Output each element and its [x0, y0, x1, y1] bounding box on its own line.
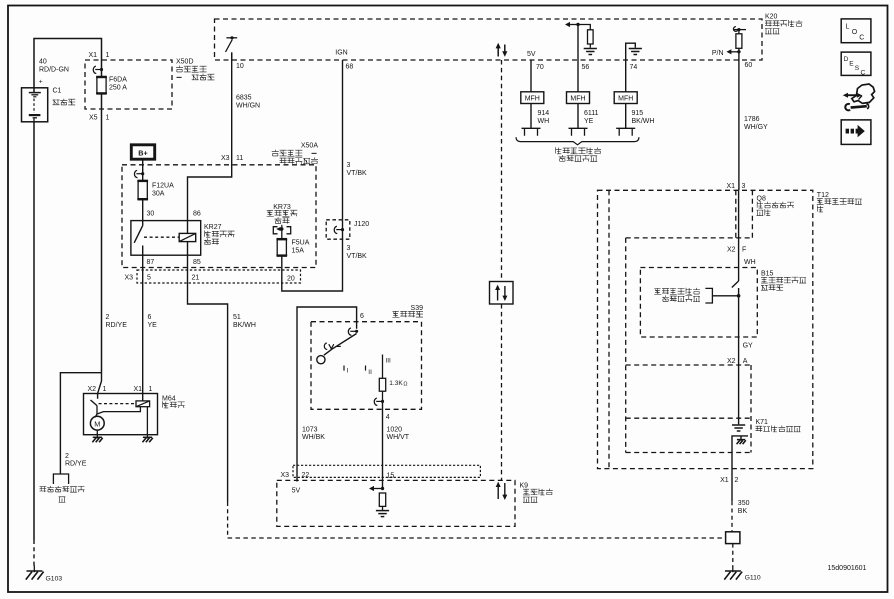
S39 position marks I II III	[343, 366, 345, 371]
K20 P/N signal pin 60	[733, 29, 746, 31]
connector to power distribution circuit	[53, 474, 68, 484]
svg-text:1: 1	[106, 52, 110, 59]
svg-text:15d0901601: 15d0901601	[828, 565, 867, 572]
wire relay pin 85 to X3-21 then 51 BK/WH	[188, 242, 228, 502]
K20 internal switch pin 10	[226, 37, 237, 39]
svg-text:A: A	[743, 358, 748, 365]
svg-text:5: 5	[147, 275, 151, 282]
transmission assembly T12	[598, 190, 813, 468]
svg-text:1786: 1786	[744, 116, 760, 123]
svg-text:RD/YE: RD/YE	[65, 460, 87, 467]
power label B+	[131, 145, 154, 159]
svg-text:BK/WH: BK/WH	[632, 118, 655, 125]
control solenoid assembly Q8	[735, 190, 737, 238]
svg-text:RD/YE: RD/YE	[106, 322, 128, 329]
svg-text:X5: X5	[89, 115, 98, 122]
svg-text:40: 40	[39, 59, 47, 66]
svg-text:3: 3	[742, 183, 746, 190]
svg-text:M64: M64	[162, 395, 176, 402]
svg-text:I: I	[347, 367, 349, 374]
inner module boundary	[625, 238, 627, 453]
fuse box X50D (battery)	[85, 60, 172, 109]
engine control module K20	[215, 19, 763, 60]
svg-text:86: 86	[193, 211, 201, 218]
B15 reference bracket to automatic transmission circuit	[654, 288, 661, 294]
wire GY	[738, 288, 740, 418]
terminal hook at F6DA	[95, 69, 101, 71]
svg-text:6: 6	[360, 313, 364, 320]
svg-text:+: +	[39, 78, 43, 85]
svg-text:70: 70	[536, 64, 544, 71]
relay KR27 starter relay	[131, 221, 201, 256]
svg-text:MFH: MFH	[525, 96, 540, 103]
svg-text:T12: T12	[817, 192, 829, 199]
svg-text:915: 915	[632, 110, 644, 117]
wire to G110	[732, 544, 734, 567]
svg-text:Ω: Ω	[403, 381, 407, 387]
svg-text:3: 3	[347, 162, 351, 169]
svg-text:X2: X2	[727, 358, 736, 365]
svg-text:KR27: KR27	[204, 224, 222, 231]
splice pack MFH 2	[567, 92, 590, 104]
svg-text:IGN: IGN	[335, 50, 347, 57]
connector X3 strip of K9	[293, 465, 480, 477]
svg-text:K71: K71	[756, 419, 769, 426]
inner boundary below B15	[626, 364, 751, 366]
svg-text:X2: X2	[727, 246, 736, 253]
svg-text:P/N: P/N	[712, 50, 724, 57]
K20 serial data arrows	[497, 46, 499, 57]
svg-text:E: E	[849, 60, 854, 67]
svg-text:WH/VT: WH/VT	[387, 434, 410, 441]
S39 terminal pin 6	[350, 330, 356, 332]
svg-text:2: 2	[735, 477, 739, 484]
svg-text:MFH: MFH	[570, 96, 585, 103]
in-line connector J120	[326, 220, 350, 239]
mode switch B15	[640, 268, 757, 338]
relay KR27 switch blade	[134, 225, 143, 243]
svg-text:X1: X1	[726, 183, 735, 190]
wire battery positive to X50D	[34, 39, 102, 93]
svg-text:1073: 1073	[302, 426, 318, 433]
wire 1786 WH/GY from K20 pin 60 to T12 X1-3	[738, 60, 740, 190]
svg-text:85: 85	[193, 259, 201, 266]
K20 ground pin 74	[626, 43, 636, 92]
terminal hook at F12UA	[136, 173, 142, 175]
svg-text:F12UA: F12UA	[152, 183, 174, 190]
K9 5V reference label	[296, 466, 298, 482]
svg-text:M: M	[94, 419, 100, 428]
svg-text:II: II	[368, 369, 372, 376]
icon next page arrow	[841, 120, 871, 144]
svg-text:GY: GY	[743, 342, 753, 349]
S39 switch arm	[324, 334, 357, 356]
starter M64	[84, 394, 158, 435]
svg-text:914: 914	[538, 110, 550, 117]
S39 resistor 1.3K	[382, 355, 384, 379]
ignition switch S39	[311, 322, 422, 410]
M64 motor	[90, 416, 104, 430]
svg-text:F: F	[742, 246, 746, 253]
ground G103	[33, 566, 35, 573]
svg-text:1: 1	[149, 386, 153, 393]
svg-text:1: 1	[106, 115, 110, 122]
splice pack MFH 3	[614, 92, 637, 104]
svg-text:30A: 30A	[152, 191, 165, 198]
svg-text:60: 60	[745, 62, 753, 69]
svg-text:S39: S39	[411, 305, 424, 312]
svg-text:X1: X1	[88, 52, 97, 59]
svg-text:1020: 1020	[387, 426, 403, 433]
svg-text:87: 87	[147, 259, 155, 266]
wire into M64 X2-1	[98, 373, 102, 399]
svg-text:RD/D-GN: RD/D-GN	[39, 67, 69, 74]
K9 serial data arrows	[497, 484, 499, 499]
relay KR27 coil	[179, 233, 196, 241]
svg-text:KR73: KR73	[273, 204, 291, 211]
wire IGN from K20 pin 68	[342, 60, 344, 220]
fuse F6DA 250A	[97, 76, 106, 94]
svg-text:O: O	[852, 29, 858, 36]
svg-text:2: 2	[106, 314, 110, 321]
M64 solenoid switch	[91, 400, 98, 406]
svg-text:11: 11	[236, 155, 243, 162]
svg-text:20: 20	[287, 276, 295, 283]
network symbol box	[490, 282, 514, 305]
svg-text:B15: B15	[761, 270, 774, 277]
K71 ground output	[732, 436, 748, 501]
wire 1020 WH/VT	[382, 401, 384, 488]
svg-text:X1: X1	[720, 477, 729, 484]
svg-text:30: 30	[147, 211, 155, 218]
svg-text:X2: X2	[87, 386, 96, 393]
svg-text:F6DA: F6DA	[109, 77, 127, 84]
connector X3 strip of X50A	[137, 270, 301, 283]
B15 switch blade	[732, 281, 739, 288]
svg-text:BK: BK	[738, 508, 748, 515]
svg-text:BK/WH: BK/WH	[233, 322, 256, 329]
svg-text:MFH: MFH	[618, 96, 633, 103]
svg-text:VT/BK: VT/BK	[347, 170, 368, 177]
fuse box X50A (underhood)	[122, 165, 316, 268]
S39 terminal pin 4	[382, 391, 384, 401]
svg-text:K20: K20	[765, 13, 778, 20]
wire 350 BK	[731, 501, 733, 532]
wire 6 YE into M64 X1-1	[142, 283, 144, 401]
svg-text:6835: 6835	[236, 95, 252, 102]
svg-text:68: 68	[346, 63, 354, 70]
fuse F5UA 15A	[281, 229, 283, 239]
svg-text:22: 22	[302, 472, 310, 479]
splice pack MFH 1	[521, 92, 544, 104]
svg-text:3: 3	[347, 245, 351, 252]
svg-text:K9: K9	[520, 482, 529, 489]
svg-text:Q8: Q8	[757, 195, 766, 202]
M64 solenoid coil	[136, 401, 150, 407]
M64 motor ground	[96, 434, 98, 439]
M64 coil wire and ground	[146, 407, 148, 435]
svg-text:G110: G110	[745, 575, 761, 582]
icon DESC	[841, 52, 871, 75]
svg-text:350: 350	[738, 500, 750, 507]
svg-text:21: 21	[192, 275, 200, 282]
K20 sensor return pin 56	[577, 25, 579, 92]
svg-text:C: C	[861, 69, 866, 76]
svg-text:56: 56	[582, 64, 590, 71]
svg-text:S: S	[855, 65, 860, 72]
svg-text:15: 15	[387, 472, 395, 479]
svg-text:YE: YE	[148, 322, 158, 329]
S39 rotary contact	[317, 356, 325, 364]
K71 signal ground	[738, 418, 740, 424]
T12 inner boundary	[608, 190, 610, 468]
connector stubs to manual transmission circuit	[522, 128, 541, 135]
icon vehicle data	[852, 84, 875, 103]
svg-text:X3: X3	[124, 275, 133, 282]
K9 input pin 15 with pull-down	[381, 487, 384, 490]
transmission control module K71	[626, 417, 751, 419]
svg-text:15A: 15A	[292, 248, 305, 255]
wire WH	[738, 190, 740, 281]
svg-text:4: 4	[386, 414, 390, 421]
svg-text:X3: X3	[221, 155, 230, 162]
K20 5V feed pin 70	[530, 60, 532, 92]
svg-text:WH: WH	[744, 259, 756, 266]
svg-text:III: III	[385, 358, 391, 365]
svg-text:5V: 5V	[527, 51, 536, 58]
wire 6835 WH/GN from K20 pin 10 to X3-11 and coil pin 86	[188, 52, 232, 233]
ground junction block	[726, 532, 740, 544]
icon LOC	[841, 19, 871, 43]
wire battery negative to G103	[33, 122, 35, 540]
svg-text:250 A: 250 A	[109, 85, 127, 92]
wire 51 BK/WH hidden routing to G110 junction	[227, 502, 229, 538]
svg-text:WH/GN: WH/GN	[236, 103, 260, 110]
body control module K9	[277, 480, 515, 526]
svg-text:WH: WH	[538, 118, 550, 125]
svg-text:C: C	[859, 35, 864, 42]
svg-text:X1: X1	[133, 386, 142, 393]
svg-text:D: D	[844, 56, 849, 63]
wire F12UA to relay pin 30	[142, 200, 144, 225]
svg-text:B+: B+	[138, 148, 147, 157]
svg-text:74: 74	[630, 64, 638, 71]
S39 start position contact	[324, 343, 327, 349]
svg-text:10: 10	[236, 63, 244, 70]
ground G110	[732, 566, 734, 573]
wire 2 RD/YE branch to power distribution	[60, 373, 101, 474]
svg-text:6: 6	[148, 314, 152, 321]
svg-text:C1: C1	[53, 88, 62, 95]
svg-text:X3: X3	[280, 472, 289, 479]
svg-text:F5UA: F5UA	[292, 240, 310, 247]
svg-text:X50D: X50D	[176, 59, 194, 66]
svg-text:6111: 6111	[584, 110, 599, 117]
relay KR27 armature link	[144, 236, 179, 238]
svg-text:VT/BK: VT/BK	[347, 253, 368, 260]
serial data line from K20 to K9	[501, 60, 503, 282]
svg-text:WH/BK: WH/BK	[302, 434, 325, 441]
svg-text:L: L	[846, 24, 850, 31]
svg-text:5V: 5V	[292, 487, 301, 494]
svg-text:2: 2	[65, 453, 69, 460]
svg-text:1.3K: 1.3K	[389, 380, 403, 387]
wire 2 RD/YE from X5-1 down	[101, 94, 103, 373]
svg-text:51: 51	[233, 314, 241, 321]
svg-text:1: 1	[103, 386, 107, 393]
wire F5UA pin 20 to J120	[282, 239, 343, 291]
svg-text:G103: G103	[46, 576, 63, 583]
wire S39 pin 6 jumper to 1073 WH/BK	[297, 307, 357, 466]
fuse F12UA 30A	[138, 180, 147, 200]
svg-text:J120: J120	[354, 221, 369, 228]
svg-text:X50A: X50A	[301, 143, 318, 150]
brace manual transmission control circuit	[516, 137, 639, 145]
wire relay pin 87 to X3-5	[142, 246, 144, 284]
svg-text:YE: YE	[584, 118, 594, 125]
wire B+ to F12UA	[142, 160, 144, 181]
svg-text:WH/GY: WH/GY	[744, 124, 768, 131]
